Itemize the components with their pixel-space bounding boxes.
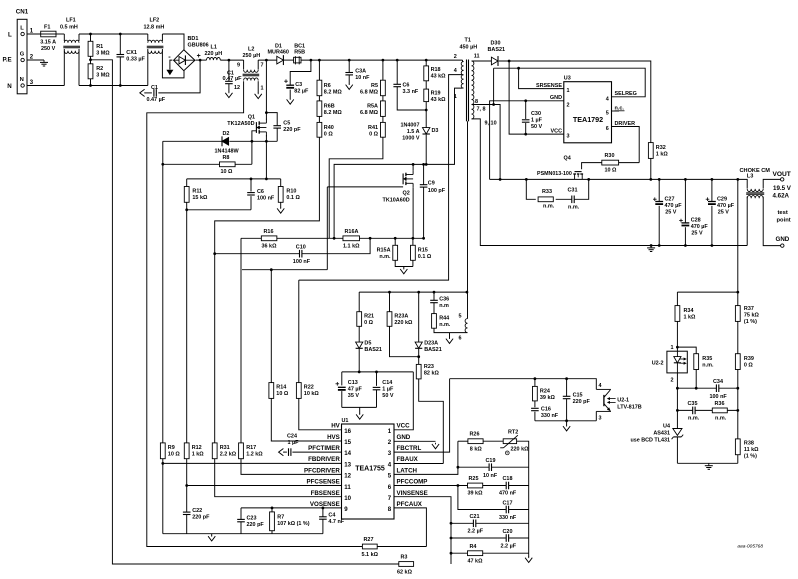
svg-text:470 µF: 470 µF	[665, 203, 683, 209]
resistor R5A	[360, 101, 385, 117]
svg-text:R18: R18	[431, 67, 441, 73]
svg-text:CX1: CX1	[126, 50, 137, 56]
transformer L2 PFC inductor	[234, 47, 264, 92]
ground secondary earth	[647, 246, 655, 252]
capacitor C29 electrolytic	[706, 197, 735, 216]
wire C3A leads	[348, 60, 350, 84]
svg-text:50 V: 50 V	[531, 124, 543, 130]
resistor R9	[160, 443, 180, 459]
svg-text:C3A: C3A	[355, 69, 366, 75]
svg-text:220 kΩ: 220 kΩ	[394, 320, 413, 326]
wire Q2 drain and source	[412, 164, 414, 238]
ground L2 pin1 arrow	[255, 93, 262, 99]
capacitor C6	[393, 83, 419, 96]
ground current sense arrow	[400, 268, 407, 274]
svg-text:R26: R26	[470, 432, 480, 438]
svg-text:330 nF: 330 nF	[499, 515, 517, 521]
wire R24 C16 branch	[534, 379, 536, 421]
svg-text:1.5 A: 1.5 A	[407, 129, 420, 135]
svg-text:BAS21: BAS21	[488, 47, 506, 53]
svg-text:C1: C1	[151, 85, 158, 91]
resistor R16A	[343, 229, 360, 250]
resistor R11	[184, 187, 208, 203]
svg-text:R15A: R15A	[377, 247, 391, 253]
svg-text:FBSENSE: FBSENSE	[311, 490, 340, 497]
wire C19 row	[458, 441, 529, 467]
resistor R36	[712, 401, 727, 422]
svg-text:10 nF: 10 nF	[483, 473, 498, 479]
svg-text:L: L	[20, 25, 24, 31]
svg-text:D5: D5	[364, 341, 371, 347]
wire aux supply row y292	[359, 291, 467, 293]
wire R18 R19 D3 chain	[425, 60, 427, 164]
wire R16 R16A row	[241, 237, 424, 239]
resistor R21	[357, 312, 374, 327]
svg-text:R5: R5	[371, 83, 378, 89]
capacitor C5	[273, 120, 301, 133]
ground control bus arrow	[208, 535, 215, 541]
svg-text:BD1: BD1	[188, 36, 199, 42]
svg-text:C23: C23	[247, 515, 257, 521]
svg-text:12: 12	[234, 85, 240, 91]
svg-text:47 kΩ: 47 kΩ	[468, 558, 484, 564]
wire bridge minus to ground	[170, 60, 173, 69]
svg-text:75 kΩ: 75 kΩ	[744, 313, 760, 319]
svg-text:R1: R1	[96, 44, 103, 50]
wire C23 branch	[240, 508, 242, 534]
svg-text:C20: C20	[503, 529, 513, 535]
capacitor C6b	[247, 189, 275, 202]
svg-text:15: 15	[344, 439, 351, 446]
ground C15 arrow	[563, 425, 570, 431]
svg-text:12: 12	[344, 473, 351, 480]
inductor LF2 common-mode choke	[144, 18, 165, 54]
wire R37 R39 R38 chain	[737, 321, 739, 463]
svg-text:470 µF: 470 µF	[717, 203, 735, 209]
ground right rail arrow	[525, 556, 532, 562]
ground C3 arrow	[287, 98, 294, 104]
svg-text:FBCTRL: FBCTRL	[397, 445, 422, 452]
svg-text:U1: U1	[342, 418, 349, 424]
svg-text:1: 1	[567, 88, 570, 94]
svg-text:R34: R34	[684, 308, 694, 314]
ground PE earth	[40, 60, 48, 66]
svg-text:Q4: Q4	[564, 156, 571, 162]
diode D30 BAS21	[488, 41, 506, 66]
resistor R39	[735, 354, 753, 370]
svg-text:D2: D2	[223, 131, 230, 137]
resistor R4	[468, 544, 484, 565]
svg-text:N: N	[20, 77, 24, 83]
svg-text:9, 10: 9, 10	[485, 121, 497, 127]
wire T1 pin5 lead (aux winding)	[467, 121, 469, 318]
svg-text:25 V: 25 V	[718, 210, 730, 216]
svg-text:220 pF: 220 pF	[573, 399, 591, 405]
svg-text:C6: C6	[257, 189, 264, 195]
ground C1 arrow	[140, 89, 146, 96]
svg-text:R36: R36	[715, 401, 725, 407]
svg-text:10 nF: 10 nF	[355, 75, 370, 81]
wire opto U2-1 collector loop / R24 C15 row	[450, 379, 597, 421]
resistor R33	[538, 189, 555, 210]
svg-text:1N4148W: 1N4148W	[215, 148, 240, 154]
wire L2 pin12 to PFC aux (long vertical x147)	[147, 81, 363, 546]
wire feedback top row	[677, 292, 737, 306]
svg-text:C5: C5	[283, 120, 290, 126]
resistor R22	[296, 383, 319, 399]
wire C15 branch	[566, 379, 568, 426]
capacitor C13 electrolytic	[336, 380, 363, 399]
wire C1b leads	[228, 60, 230, 92]
wire PFCDRIVER row from R17	[241, 238, 342, 474]
svg-text:R15: R15	[418, 247, 428, 253]
svg-text:4: 4	[606, 96, 609, 102]
svg-text:0 Ω: 0 Ω	[369, 131, 379, 137]
svg-text:0 Ω: 0 Ω	[364, 320, 374, 326]
svg-text:U3: U3	[564, 76, 571, 82]
svg-text:2: 2	[567, 102, 570, 108]
svg-text:HV: HV	[331, 423, 340, 430]
wire T1 tap 9,10 to secondary ground rail	[472, 119, 748, 246]
svg-text:100 pF: 100 pF	[428, 188, 446, 194]
svg-text:C16: C16	[541, 407, 551, 413]
svg-text:3.3 nF: 3.3 nF	[403, 89, 419, 95]
svg-text:C24: C24	[287, 434, 297, 440]
terminal VOUT	[773, 171, 792, 200]
wire PFCDRIVER gate feed y269.7	[242, 187, 327, 270]
svg-text:100 nF: 100 nF	[710, 394, 728, 400]
capacitor C10	[293, 244, 311, 265]
svg-text:250 V: 250 V	[41, 46, 56, 52]
svg-text:L: L	[8, 32, 12, 39]
svg-text:C19: C19	[486, 458, 496, 464]
svg-text:C15: C15	[573, 393, 583, 399]
wire C21 row	[451, 522, 529, 524]
svg-text:250 µH: 250 µH	[243, 53, 261, 59]
capacitor C4	[319, 513, 345, 526]
svg-text:R22: R22	[304, 385, 314, 391]
wire D5 R21 chain	[358, 292, 360, 372]
ferrite bead BC1 R5B	[294, 43, 306, 64]
ground C3A arrow	[346, 83, 353, 89]
resistor R6	[317, 80, 342, 96]
resistor R44	[432, 314, 451, 329]
svg-text:TEA1755: TEA1755	[355, 466, 385, 473]
svg-text:2.2 kΩ: 2.2 kΩ	[220, 452, 237, 458]
capacitor C17	[499, 500, 517, 521]
svg-text:220 µH: 220 µH	[205, 51, 223, 57]
svg-text:14: 14	[344, 450, 351, 457]
wire L2 pin9 lead	[243, 60, 245, 69]
wire C9 branch	[423, 164, 425, 238]
resistor R8	[220, 155, 236, 175]
resistor R2	[88, 64, 110, 79]
ground bridge minus arrow	[166, 70, 173, 75]
capacitor C35	[688, 401, 700, 422]
wire C30 leads	[525, 101, 527, 134]
resistor R24	[533, 386, 556, 401]
svg-text:10: 10	[344, 495, 351, 502]
svg-text:0.47 µF: 0.47 µF	[223, 76, 243, 82]
svg-text:TEA1792: TEA1792	[573, 115, 603, 124]
transistor Q4 PSMN013-100 sync FET	[537, 156, 583, 180]
wire L2 pin7 lead	[257, 60, 259, 69]
svg-text:1 kΩ: 1 kΩ	[656, 151, 669, 157]
wire AC line top rail	[24, 34, 185, 50]
capacitor C3 electrolytic	[284, 79, 309, 94]
wire D2 R8 gate network rows	[163, 131, 277, 165]
svg-text:C30: C30	[531, 111, 541, 117]
svg-text:6: 6	[606, 126, 609, 132]
svg-text:FBDRIVER: FBDRIVER	[308, 456, 340, 463]
svg-text:n.m.: n.m.	[543, 204, 555, 210]
svg-text:15 kΩ: 15 kΩ	[192, 195, 208, 201]
svg-text:R16A: R16A	[345, 229, 359, 235]
wire R41 bottom to gate node row	[329, 137, 383, 238]
svg-text:AS431: AS431	[653, 431, 670, 437]
svg-text:n.m.: n.m.	[715, 416, 727, 422]
transformer T1	[454, 38, 497, 127]
svg-text:82 µF: 82 µF	[294, 89, 309, 95]
svg-text:C3: C3	[295, 82, 302, 88]
svg-text:PFCDRIVER: PFCDRIVER	[304, 467, 340, 474]
resistor R16	[261, 229, 277, 250]
svg-text:R10: R10	[286, 189, 296, 195]
resistor R12	[184, 443, 204, 459]
svg-text:43 kΩ: 43 kΩ	[431, 97, 447, 103]
capacitor C23	[237, 515, 265, 528]
svg-text:R30: R30	[605, 153, 615, 159]
svg-text:8: 8	[475, 99, 478, 105]
svg-text:470 µF: 470 µF	[691, 224, 709, 230]
svg-text:19.5 V: 19.5 V	[773, 185, 792, 192]
diode D3 1N4007	[400, 123, 438, 142]
wire PFCCOMP node	[394, 486, 529, 510]
resistor R30	[602, 153, 619, 174]
svg-text:3: 3	[599, 416, 602, 422]
svg-text:100 nF: 100 nF	[293, 259, 311, 265]
svg-text:VCC: VCC	[397, 423, 411, 430]
svg-text:BAS21: BAS21	[424, 347, 442, 353]
svg-text:C9: C9	[428, 181, 435, 187]
capacitor C3A	[345, 69, 370, 82]
capacitor C16	[531, 407, 559, 420]
svg-text:1: 1	[454, 94, 457, 100]
svg-text:GND: GND	[397, 434, 411, 441]
svg-text:RT2: RT2	[508, 430, 518, 436]
svg-text:R39: R39	[744, 356, 754, 362]
wire FBSENSE row from R31	[215, 459, 342, 497]
resistor R32	[648, 143, 668, 159]
svg-text:R32: R32	[656, 145, 666, 151]
resistor R38	[735, 439, 759, 459]
wire VCC drop to U3	[509, 61, 564, 134]
svg-text:330 nF: 330 nF	[541, 413, 559, 419]
wire PFCAUX to R27	[377, 508, 426, 547]
svg-text:U2-2: U2-2	[652, 361, 664, 367]
svg-text:8 kΩ: 8 kΩ	[470, 446, 483, 452]
capacitor C19	[483, 458, 498, 479]
svg-text:C13: C13	[348, 380, 358, 386]
svg-text:P.E: P.E	[3, 57, 12, 64]
svg-text:R6B: R6B	[324, 104, 335, 110]
terminal GND output	[776, 210, 791, 247]
svg-text:R11: R11	[192, 189, 202, 195]
ground C1b arrow	[225, 92, 232, 98]
wire T1 pin4 to R22/HV	[299, 75, 463, 430]
svg-text:13: 13	[344, 461, 351, 468]
svg-text:1.1 kΩ: 1.1 kΩ	[343, 243, 360, 249]
wire LF1 leads	[64, 34, 79, 86]
svg-text:C14: C14	[382, 380, 392, 386]
svg-text:T1: T1	[465, 38, 471, 44]
wire U2-2 cathode to C34 row	[677, 370, 696, 389]
svg-text:R24: R24	[540, 388, 550, 394]
wire boost node rail (bridge+ to T1)	[196, 59, 463, 61]
resistor R23	[416, 364, 439, 379]
wire D23A R23 branch to FBAUX	[394, 292, 443, 463]
svg-text:R38: R38	[744, 440, 754, 446]
svg-text:R16: R16	[264, 229, 274, 235]
svg-text:C28: C28	[691, 218, 701, 224]
wire R15A R15 sense	[395, 238, 413, 268]
label document number	[737, 544, 763, 550]
resistor R15	[411, 245, 432, 260]
capacitor C36	[430, 297, 449, 310]
capacitor C28 electrolytic	[679, 218, 708, 237]
capacitor C18	[499, 476, 517, 497]
wire R34 bottom / U2-2 anode	[677, 321, 696, 353]
svg-text:n.m.: n.m.	[568, 205, 580, 211]
capacitor C30	[521, 111, 542, 130]
svg-text:39 kΩ: 39 kΩ	[540, 395, 556, 401]
capacitor C24	[287, 434, 299, 457]
wire L3 to GND terminal	[747, 197, 780, 246]
svg-text:Q1: Q1	[248, 114, 255, 120]
svg-text:n.m.: n.m.	[439, 322, 451, 328]
wire LATCH to C19/R26 node	[394, 467, 458, 474]
svg-text:6.8 MΩ: 6.8 MΩ	[360, 89, 379, 95]
wire U3 GND to secondary rail	[490, 101, 564, 180]
wire AC neutral bottom rail	[24, 49, 185, 86]
wire SRSENSE loop	[494, 68, 646, 104]
svg-text:R35: R35	[702, 356, 712, 362]
svg-text:D30: D30	[491, 41, 501, 47]
svg-text:n.m: n.m	[439, 303, 449, 309]
resistor R35	[694, 354, 714, 370]
svg-text:VINSENSE: VINSENSE	[397, 490, 428, 497]
transistor Q2 TK10A60D	[383, 170, 414, 204]
ground aux winding arrow	[446, 337, 453, 343]
svg-text:C29: C29	[717, 197, 727, 203]
svg-text:1 µF: 1 µF	[382, 387, 394, 393]
svg-text:R8: R8	[223, 155, 230, 161]
svg-text:R17: R17	[246, 445, 256, 451]
svg-text:25 V: 25 V	[665, 210, 677, 216]
capacitor C9	[419, 181, 445, 194]
ground C24 arrow left	[279, 449, 285, 456]
svg-text:12.8 mH: 12.8 mH	[144, 25, 165, 31]
svg-text:R44: R44	[439, 316, 449, 322]
wire U4 to bottom row	[677, 437, 737, 463]
wire R12 C22 vertical	[186, 210, 188, 534]
wire C35 R36 row	[677, 388, 737, 428]
svg-text:D1: D1	[275, 43, 282, 49]
svg-text:R4: R4	[470, 544, 477, 550]
svg-text:L1: L1	[211, 45, 217, 51]
svg-text:SELREG: SELREG	[615, 91, 637, 97]
wire C34 row	[677, 387, 737, 389]
svg-text:C22: C22	[192, 508, 202, 514]
svg-text:3.15 A: 3.15 A	[40, 40, 56, 46]
svg-text:C10: C10	[296, 244, 306, 250]
capacitor C1b	[223, 71, 243, 84]
svg-text:U4: U4	[663, 424, 670, 430]
svg-text:0.47 µF: 0.47 µF	[147, 97, 166, 103]
svg-text:R27: R27	[364, 537, 374, 543]
resistor R3	[397, 555, 414, 576]
diode D1	[268, 43, 289, 65]
svg-text:N: N	[7, 83, 12, 90]
wire output caps C27 C28 C29 leads	[659, 179, 712, 245]
svg-text:1: 1	[671, 345, 674, 351]
svg-text:C36: C36	[439, 297, 449, 303]
svg-text:2: 2	[671, 378, 674, 384]
resistor R31	[212, 443, 236, 459]
svg-text:GND: GND	[550, 95, 562, 101]
optocoupler U2-1 transistor	[596, 383, 641, 422]
svg-text:10 Ω: 10 Ω	[276, 391, 289, 397]
svg-text:9: 9	[344, 506, 348, 513]
capacitor C22	[182, 508, 210, 521]
svg-text:35 V: 35 V	[348, 393, 360, 399]
wire Q2 gate row	[327, 186, 403, 188]
resistor R34	[675, 306, 696, 322]
capacitor C21	[468, 514, 484, 535]
svg-text:0 Ω: 0 Ω	[744, 362, 754, 368]
svg-text:2.2 µF: 2.2 µF	[501, 543, 517, 549]
svg-text:test: test	[778, 210, 788, 216]
svg-text:8.2 MΩ: 8.2 MΩ	[324, 89, 343, 95]
svg-text:R9: R9	[168, 445, 175, 451]
svg-text:R7: R7	[277, 514, 284, 520]
svg-text:R14: R14	[276, 385, 286, 391]
svg-text:D23A: D23A	[424, 341, 438, 347]
capacitor C34	[710, 379, 728, 400]
wire C6 leads	[397, 60, 426, 110]
svg-text:0 Ω: 0 Ω	[324, 131, 334, 137]
capacitor C14	[372, 380, 394, 399]
svg-text:CHOKE CM: CHOKE CM	[740, 168, 771, 174]
wire PFCTIMER C24 row	[284, 451, 341, 453]
resistor R37	[735, 306, 759, 325]
svg-text:GBU806: GBU806	[188, 43, 209, 49]
wire PFCSENSE row from R12	[187, 485, 342, 487]
svg-text:MUR460: MUR460	[268, 50, 289, 56]
wire R5 chain	[382, 60, 384, 122]
resistor R27	[362, 537, 379, 558]
svg-text:4: 4	[454, 68, 457, 74]
resistor R1	[88, 41, 110, 56]
resistor R5	[360, 80, 385, 96]
svg-text:R25: R25	[469, 476, 479, 482]
svg-text:TK10A60D: TK10A60D	[383, 198, 410, 204]
svg-text:R23A: R23A	[394, 314, 408, 320]
wire CX1 leads	[119, 34, 121, 86]
ground GND pin arrow	[432, 443, 439, 449]
svg-text:11: 11	[474, 54, 480, 60]
svg-text:1: 1	[261, 86, 264, 92]
